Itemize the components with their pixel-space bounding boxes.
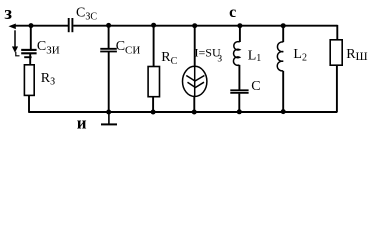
svg-text:з: з (4, 3, 12, 24)
wire top bus left segment (15, 25, 69, 27)
resistor R_с box (148, 67, 159, 97)
wire bottom bus (29, 111, 337, 113)
capacitor C_зс plates (series, top bus) (69, 18, 73, 32)
wire Rc branch lower (152, 97, 154, 112)
ground symbol (101, 112, 117, 124)
wire L1 branch lower (238, 94, 240, 112)
wire L1 branch mid (238, 65, 240, 90)
capacitor C plates (below L1) (230, 90, 248, 93)
capacitor C_си plates (100, 49, 117, 52)
current source chevron 1 (186, 76, 204, 82)
inductor L1 coil (233, 42, 239, 66)
node dot top source junction (192, 23, 197, 28)
current source chevron 2 (188, 82, 205, 87)
capacitor C_зи plates (21, 50, 36, 53)
wire RSh branch lower (336, 65, 338, 112)
resistor R_ш box (330, 40, 342, 65)
node dot top gate junction (29, 23, 34, 28)
node dot bottom Rc junction (151, 110, 156, 115)
wire L2 branch lower (282, 71, 284, 112)
wire Rc branch upper (153, 26, 155, 67)
node dot bottom L2 junction (281, 109, 286, 114)
input arrow (down) at gate (12, 30, 19, 56)
wire top bus right segment (73, 25, 337, 27)
wire L2 branch upper (282, 26, 284, 42)
svg-text:и: и (77, 113, 87, 132)
node dot bottom source junction (192, 110, 197, 115)
svg-text:C: C (251, 79, 260, 94)
capacitor C_зи short third bar (24, 56, 31, 58)
node dot bottom ground junction (106, 110, 111, 115)
wire right drop to RSh (336, 25, 338, 40)
svg-text:З: З (217, 54, 222, 64)
node dot top L2 junction (281, 23, 286, 28)
inductor L2 coil (277, 42, 283, 71)
wire L1 branch upper (239, 26, 241, 42)
wire left branch lower (28, 95, 30, 112)
node dot top c junction (237, 23, 242, 28)
wire Csi branch lower (108, 52, 110, 112)
node dot top Csi junction (106, 23, 111, 28)
svg-text:RШ: RШ (346, 47, 367, 63)
wire left branch upper (30, 26, 32, 50)
node dot bottom L1 junction (237, 109, 242, 114)
wire left branch mid (29, 54, 31, 65)
wire Csi branch upper (108, 26, 110, 49)
current source U1 circle (183, 66, 207, 96)
node dot top Rc junction (151, 23, 156, 28)
wire current-source branch lower (193, 97, 195, 113)
resistor R_з box (24, 65, 34, 96)
wire current-source branch upper (194, 26, 196, 67)
svg-text:с: с (229, 4, 236, 21)
current source inner arrow line (194, 66, 196, 96)
node з terminal arrow (9, 24, 15, 29)
